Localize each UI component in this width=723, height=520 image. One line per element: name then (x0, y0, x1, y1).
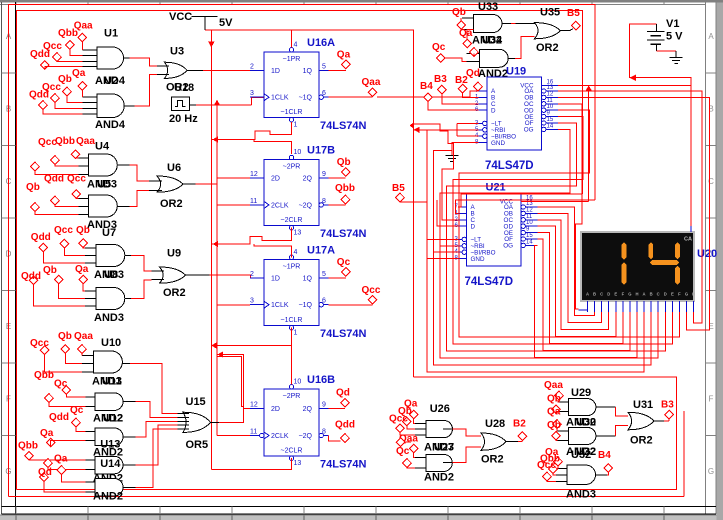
svg-text:Qb: Qb (337, 157, 351, 168)
svg-text:D: D (491, 107, 496, 114)
svg-text:Qa: Qa (337, 49, 351, 60)
svg-text:~2Q: ~2Q (299, 202, 313, 209)
svg-text:Qd: Qd (466, 68, 480, 79)
svg-text:Qcc: Qcc (54, 225, 73, 236)
svg-text:Qc: Qc (54, 379, 68, 390)
svg-text:Qa: Qa (459, 28, 473, 39)
svg-text:Qcc: Qcc (389, 414, 408, 425)
svg-text:U28: U28 (485, 418, 505, 430)
svg-text:OG: OG (524, 127, 534, 134)
svg-text:Qb: Qb (547, 420, 561, 431)
svg-text:2D: 2D (271, 176, 280, 183)
svg-text:U5: U5 (97, 179, 111, 191)
svg-text:Qbb: Qbb (55, 136, 75, 147)
svg-text:~2CLR: ~2CLR (281, 217, 303, 224)
svg-text:U30: U30 (576, 417, 596, 429)
svg-text:G: G (708, 467, 714, 476)
svg-text:74LS74N: 74LS74N (320, 120, 367, 132)
svg-text:74LS74N: 74LS74N (320, 459, 367, 471)
svg-text:U8: U8 (104, 269, 118, 281)
svg-text:5: 5 (322, 63, 326, 70)
svg-text:2D: 2D (271, 406, 280, 413)
svg-text:VCC: VCC (169, 11, 192, 23)
svg-text:B5: B5 (567, 8, 580, 19)
svg-text:1D: 1D (271, 275, 280, 282)
svg-text:15: 15 (547, 117, 554, 123)
svg-text:1: 1 (294, 330, 298, 337)
svg-text:D: D (471, 223, 476, 230)
svg-text:U9: U9 (167, 248, 181, 260)
svg-text:11: 11 (547, 98, 554, 104)
svg-text:U3: U3 (170, 46, 184, 58)
svg-text:Qb: Qb (43, 265, 57, 276)
svg-text:1CLK: 1CLK (271, 302, 289, 309)
svg-text:U7: U7 (102, 227, 116, 239)
svg-text:C: C (708, 177, 714, 186)
svg-text:C: C (657, 292, 660, 297)
svg-text:CA: CA (684, 237, 692, 243)
svg-text:B4: B4 (420, 81, 433, 92)
svg-text:AND4: AND4 (95, 119, 126, 131)
svg-text:GND: GND (471, 256, 485, 263)
svg-text:11: 11 (250, 429, 257, 436)
svg-text:U10: U10 (101, 337, 121, 349)
svg-text:~1Q: ~1Q (299, 302, 313, 309)
svg-text:1CLK: 1CLK (271, 95, 289, 102)
svg-text:12: 12 (250, 171, 258, 178)
svg-text:1D: 1D (271, 68, 280, 75)
svg-text:5: 5 (322, 271, 326, 278)
svg-text:Qb: Qb (76, 225, 90, 236)
svg-text:5 V: 5 V (666, 31, 683, 43)
svg-text:74LS47D: 74LS47D (485, 160, 534, 172)
svg-text:U17B: U17B (307, 145, 335, 157)
svg-text:~2CLR: ~2CLR (281, 448, 303, 455)
svg-text:H: H (692, 292, 695, 297)
svg-text:10: 10 (294, 379, 302, 386)
svg-text:Qd: Qd (38, 467, 52, 478)
svg-text:2CLK: 2CLK (271, 202, 289, 209)
svg-text:~1PR: ~1PR (283, 56, 301, 63)
svg-text:74LS47D: 74LS47D (465, 276, 514, 288)
svg-text:AND3: AND3 (94, 312, 124, 324)
svg-text:9: 9 (322, 402, 326, 409)
svg-text:Qc: Qc (70, 405, 84, 416)
svg-text:11: 11 (250, 198, 257, 205)
svg-text:E: E (671, 292, 674, 297)
svg-text:B5: B5 (392, 183, 405, 194)
svg-text:14: 14 (526, 239, 533, 245)
svg-text:B: B (593, 292, 596, 297)
svg-text:2: 2 (250, 63, 254, 70)
svg-text:Qa: Qa (72, 68, 86, 79)
svg-text:G: G (628, 292, 631, 297)
svg-text:~2PR: ~2PR (283, 164, 301, 171)
svg-text:74LS74N: 74LS74N (320, 328, 367, 340)
svg-text:H: H (635, 292, 638, 297)
svg-text:U4: U4 (95, 141, 110, 153)
svg-text:6: 6 (322, 90, 326, 97)
svg-text:20 Hz: 20 Hz (169, 113, 198, 125)
svg-text:4: 4 (294, 42, 298, 49)
svg-text:Qa: Qa (40, 428, 54, 439)
svg-text:OR5: OR5 (186, 439, 209, 451)
svg-text:1Q: 1Q (303, 68, 313, 75)
svg-text:15: 15 (526, 233, 533, 239)
svg-text:~2Q: ~2Q (299, 433, 313, 440)
svg-text:U2: U2 (104, 75, 118, 87)
svg-text:13: 13 (294, 230, 302, 237)
svg-text:D: D (664, 292, 667, 297)
svg-text:GND: GND (491, 140, 505, 147)
svg-text:Qaa: Qaa (362, 77, 381, 88)
svg-text:A: A (708, 32, 714, 41)
svg-text:OR2: OR2 (536, 42, 559, 54)
svg-text:U19: U19 (506, 66, 526, 78)
svg-text:14: 14 (547, 123, 554, 129)
svg-text:B: B (650, 292, 653, 297)
svg-text:F: F (709, 395, 714, 404)
svg-text:B3: B3 (661, 400, 674, 411)
svg-text:4: 4 (294, 249, 298, 256)
svg-text:Qcc: Qcc (30, 338, 49, 349)
svg-text:3: 3 (250, 90, 254, 97)
svg-text:2Q: 2Q (303, 176, 313, 183)
svg-text:Qa: Qa (75, 264, 89, 275)
svg-text:A: A (643, 292, 646, 297)
svg-text:74LS74N: 74LS74N (320, 228, 367, 240)
svg-text:8: 8 (322, 198, 326, 205)
svg-text:13: 13 (547, 85, 554, 91)
svg-text:B2: B2 (513, 419, 526, 430)
svg-text:12: 12 (547, 91, 554, 97)
svg-text:3: 3 (250, 298, 254, 305)
svg-text:6: 6 (322, 298, 326, 305)
svg-text:C: C (600, 292, 603, 297)
svg-text:Qb: Qb (547, 393, 561, 404)
svg-text:Qdd: Qdd (30, 49, 50, 60)
svg-text:10: 10 (294, 149, 302, 156)
svg-text:1Q: 1Q (303, 275, 313, 282)
svg-text:G: G (685, 292, 688, 297)
svg-text:Qcc: Qcc (537, 460, 556, 471)
svg-text:A: A (586, 292, 589, 297)
svg-text:U27: U27 (434, 442, 454, 454)
svg-text:5V: 5V (219, 17, 233, 29)
svg-text:~1PR: ~1PR (283, 264, 301, 271)
svg-text:Qbb: Qbb (335, 183, 355, 194)
svg-text:Qa: Qa (54, 454, 68, 465)
svg-text:~2PR: ~2PR (283, 393, 301, 400)
svg-text:OR2: OR2 (163, 287, 186, 299)
svg-text:OR2: OR2 (166, 82, 189, 94)
svg-text:U14: U14 (100, 458, 121, 470)
svg-text:Qdd: Qdd (29, 90, 49, 101)
svg-text:U26: U26 (430, 403, 450, 415)
svg-text:U34: U34 (482, 35, 503, 47)
svg-text:U17A: U17A (307, 245, 335, 257)
svg-text:1: 1 (294, 122, 298, 129)
svg-text:Qb: Qb (26, 182, 40, 193)
svg-text:Qaa: Qaa (544, 380, 563, 391)
svg-text:10: 10 (526, 220, 533, 226)
svg-text:OR2: OR2 (630, 435, 653, 447)
svg-text:U29: U29 (571, 387, 591, 399)
svg-text:Qaa: Qaa (76, 136, 95, 147)
svg-text:8: 8 (322, 429, 326, 436)
svg-text:Qbb: Qbb (58, 28, 78, 39)
svg-text:~1CLR: ~1CLR (281, 317, 303, 324)
svg-text:Qdd: Qdd (49, 412, 69, 423)
svg-text:U15: U15 (186, 396, 206, 408)
svg-text:U1: U1 (104, 28, 118, 40)
svg-text:Qcc: Qcc (67, 174, 86, 185)
svg-text:AND2: AND2 (424, 471, 454, 483)
svg-text:U11: U11 (102, 376, 122, 388)
svg-text:U33: U33 (478, 1, 498, 13)
svg-text:12: 12 (250, 402, 258, 409)
svg-text:E: E (614, 292, 617, 297)
svg-text:U32: U32 (571, 449, 591, 461)
svg-text:Qbb: Qbb (18, 440, 38, 451)
svg-text:2Q: 2Q (303, 406, 313, 413)
svg-text:U35: U35 (540, 6, 560, 18)
svg-text:A: A (6, 32, 12, 41)
svg-text:Qdd: Qdd (44, 174, 64, 185)
svg-text:Qa: Qa (547, 407, 561, 418)
svg-text:13: 13 (294, 460, 302, 467)
svg-text:B4: B4 (598, 450, 611, 461)
svg-text:F: F (622, 292, 625, 297)
svg-text:Qaa: Qaa (74, 331, 93, 342)
svg-text:Qb: Qb (452, 7, 466, 18)
svg-text:U6: U6 (167, 162, 181, 174)
svg-text:U31: U31 (633, 399, 653, 411)
svg-text:Qdd: Qdd (335, 420, 355, 431)
svg-text:AND3: AND3 (566, 489, 596, 501)
svg-text:B2: B2 (455, 75, 468, 86)
svg-text:2: 2 (250, 271, 254, 278)
svg-text:Qc: Qc (337, 257, 351, 268)
svg-text:AND2: AND2 (93, 490, 123, 502)
svg-text:Qc: Qc (432, 42, 446, 53)
svg-text:Qb: Qb (58, 331, 72, 342)
svg-text:~1Q: ~1Q (299, 95, 313, 102)
svg-text:OR2: OR2 (160, 198, 183, 210)
svg-text:Qd: Qd (336, 388, 350, 399)
svg-text:OG: OG (503, 243, 513, 250)
svg-text:B3: B3 (434, 74, 447, 85)
svg-text:Qbb: Qbb (34, 370, 54, 381)
svg-text:U21: U21 (486, 182, 506, 194)
svg-text:V1: V1 (666, 18, 679, 30)
svg-text:2CLK: 2CLK (271, 433, 289, 440)
svg-text:10: 10 (547, 104, 554, 110)
svg-text:Qc: Qc (396, 446, 410, 457)
svg-text:OR2: OR2 (481, 454, 504, 466)
svg-text:U16A: U16A (307, 37, 335, 49)
svg-text:9: 9 (322, 171, 326, 178)
svg-text:~1CLR: ~1CLR (281, 109, 303, 116)
svg-text:Qdd: Qdd (21, 271, 41, 282)
svg-text:D: D (607, 292, 610, 297)
svg-text:12: 12 (526, 207, 533, 213)
svg-text:Qdd: Qdd (31, 232, 51, 243)
svg-text:F: F (678, 292, 681, 297)
svg-text:U12: U12 (103, 412, 123, 424)
svg-text:U16B: U16B (307, 374, 335, 386)
svg-text:11: 11 (526, 214, 533, 220)
svg-text:U20: U20 (697, 248, 717, 260)
svg-text:Qcc: Qcc (362, 285, 381, 296)
